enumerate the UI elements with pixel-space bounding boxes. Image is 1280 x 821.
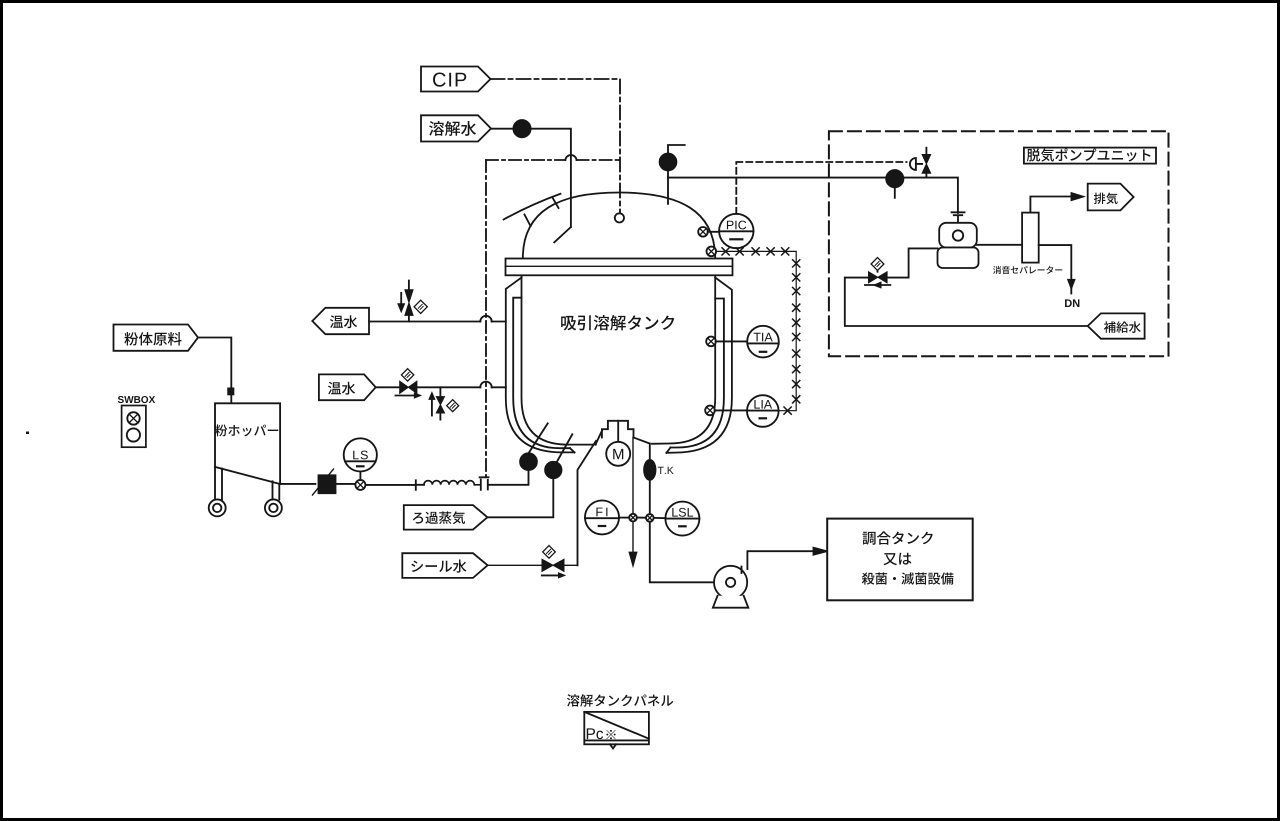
hopper legs and casters — [209, 467, 282, 516]
jacket inlet valve (steam) — [545, 434, 572, 478]
vacuum pump — [938, 212, 979, 268]
nozzle to TIA — [706, 337, 716, 347]
steam trap T.K — [644, 460, 674, 480]
separator drain DN — [1039, 245, 1080, 307]
drain line from outlet — [632, 438, 634, 552]
温水 upper pipe — [369, 316, 506, 322]
vacuum relief valve — [910, 148, 931, 178]
tag 補給水 — [1088, 313, 1145, 338]
温水 lower pipe — [376, 382, 506, 388]
pump — [713, 566, 748, 608]
powder feed line — [198, 338, 233, 404]
seal water standpipe (skirt left) — [578, 441, 597, 565]
instrument PIC — [719, 214, 753, 248]
tag 温水 (lower) — [319, 374, 376, 400]
instrument FI — [585, 500, 628, 534]
温水 branch valve — [430, 387, 459, 419]
nozzle to LIA — [705, 406, 715, 416]
tag シール水 — [402, 553, 487, 578]
tank flange — [506, 259, 733, 276]
makeup water valve — [865, 258, 890, 288]
outlet pipe to pump — [650, 444, 714, 583]
tag ろ過蒸気 — [404, 505, 488, 529]
capillary line to LIA (x-marked) — [716, 248, 800, 414]
instrument LSL — [665, 502, 699, 536]
vacuum unit dashed box — [829, 131, 1169, 356]
junction node at LSL branch — [646, 514, 654, 522]
vacuum suction pipe — [668, 178, 958, 213]
LIA connection — [715, 409, 747, 411]
シール水 valve — [542, 546, 564, 578]
ball valve on vacuum pipe — [886, 170, 903, 198]
tank bottom outlet — [596, 421, 650, 445]
シール水 pipe — [488, 564, 578, 566]
discharge arrow — [814, 548, 827, 555]
PIC signal line (dashed) — [736, 162, 906, 214]
TIA connection — [716, 340, 748, 342]
junction node at LS — [355, 480, 365, 490]
nozzle to PIC — [698, 227, 708, 237]
tag 排気 — [1088, 184, 1134, 211]
tag 温水 (upper) — [312, 308, 369, 334]
溶解水 pipe — [491, 129, 571, 243]
FI-LSL junction pipes — [638, 517, 666, 520]
ろ過蒸気 pipe — [487, 478, 553, 517]
separator 消音セパレーター — [993, 213, 1062, 274]
flexible hose coil — [424, 481, 480, 485]
pump to separator pipe — [977, 244, 1022, 246]
jacket inlet valve (powder line) — [520, 423, 548, 470]
powder hopper 粉ホッパー — [215, 403, 280, 484]
slide valve (black square) — [313, 469, 336, 495]
panel box Pc* — [584, 712, 649, 749]
manway on dome — [504, 194, 561, 226]
SWBOX — [118, 396, 155, 447]
stray mark — [26, 432, 29, 435]
nozzle to capillary — [707, 247, 717, 257]
instrument TIA — [747, 326, 779, 358]
tank label 吸引溶解タンク — [561, 315, 674, 330]
instrument LIA — [747, 395, 779, 427]
tank left wall and jacket — [506, 277, 596, 453]
powder suction line — [280, 470, 528, 490]
unit title box 脱気ポンプユニット — [1024, 148, 1156, 164]
ball valve on vent pipe — [660, 154, 677, 171]
tank dome — [523, 193, 715, 259]
tag CIP — [421, 67, 491, 92]
exhaust arrow — [1072, 193, 1083, 200]
tank right wall and jacket — [652, 277, 732, 453]
tag 粉体原料 — [114, 325, 199, 351]
instrument LS — [344, 438, 377, 480]
makeup water pipe — [845, 248, 1088, 326]
vent pipe on dome — [668, 145, 685, 204]
CIP supply line (dash-dot) — [491, 79, 621, 213]
温水 upper valve — [399, 281, 428, 322]
温水 lower valve — [396, 369, 420, 398]
pump discharge pipe — [742, 551, 814, 573]
label 溶解タンクパネル — [567, 694, 673, 706]
ball valve on 溶解水 pipe — [513, 120, 530, 137]
box 調合タンク/殺菌・滅菌設備 — [827, 519, 973, 601]
CIP manifold dash-dot line — [486, 155, 620, 476]
vent nozzle circle on dome — [615, 213, 624, 222]
agitator shaft — [617, 421, 619, 442]
drain arrow — [630, 553, 637, 565]
junction node at drain — [629, 514, 637, 522]
motor M — [606, 442, 630, 466]
PIC process connection — [708, 231, 719, 233]
tag 溶解水 — [421, 115, 491, 141]
separator exhaust pipe — [1030, 197, 1071, 213]
